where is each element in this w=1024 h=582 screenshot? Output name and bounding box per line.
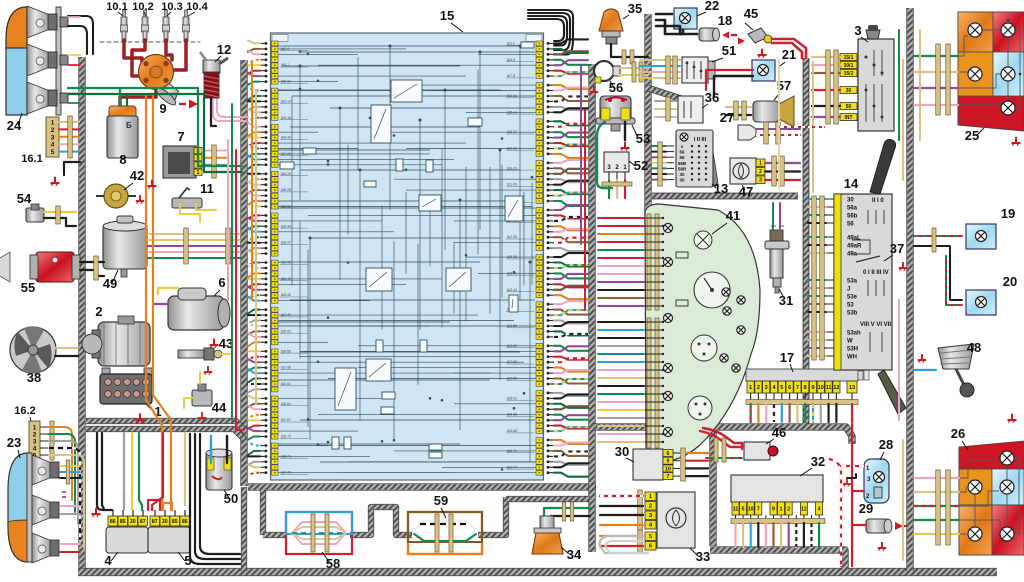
svg-text:6: 6 [667,451,670,457]
svg-text:Ш8-73: Ш8-73 [281,454,291,458]
svg-text:6: 6 [788,385,791,391]
svg-text:Ш2-59: Ш2-59 [507,377,517,381]
svg-text:Ш2-58: Ш2-58 [281,366,291,370]
svg-text:Ш8-19: Ш8-19 [281,136,291,140]
svg-text:49aR: 49aR [847,244,862,250]
svg-text:W: W [847,339,853,345]
svg-text:Ш7-56: Ш7-56 [507,360,517,364]
svg-text:Ш1-50: Ш1-50 [507,324,517,328]
svg-text:1: 1 [780,506,783,512]
svg-text:12: 12 [801,506,807,512]
svg-text:33: 33 [696,549,710,564]
svg-text:Б: Б [126,121,132,130]
svg-text:5: 5 [780,385,783,391]
svg-text:56: 56 [847,222,854,228]
svg-text:10: 10 [818,385,824,391]
svg-text:31: 31 [779,293,793,308]
svg-text:Ш5-61: Ш5-61 [281,382,291,386]
svg-text:Ш8-28: Ш8-28 [281,188,291,192]
svg-text:1: 1 [51,120,55,127]
svg-text:12: 12 [833,385,839,391]
svg-text:6: 6 [218,275,225,290]
svg-text:38: 38 [27,370,41,385]
svg-text:56: 56 [679,155,685,160]
svg-text:2: 2 [759,169,762,175]
svg-text:16.2: 16.2 [14,405,35,417]
svg-text:4: 4 [33,446,37,453]
svg-text:Ш5-14: Ш5-14 [507,110,517,114]
svg-text:49a: 49a [847,252,858,258]
svg-text:Ш5-62: Ш5-62 [507,396,517,400]
svg-text:Ш8-46: Ш8-46 [281,293,291,297]
svg-text:Ш2-76: Ш2-76 [281,471,291,475]
svg-text:86: 86 [182,519,188,525]
svg-text:42: 42 [130,168,144,183]
svg-text:J: J [847,287,850,293]
svg-text:53: 53 [636,131,650,146]
svg-text:30: 30 [847,198,854,204]
svg-text:Ш1-74: Ш1-74 [507,465,517,469]
svg-text:7: 7 [667,474,670,480]
svg-text:INT: INT [844,115,852,121]
svg-text:3: 3 [33,439,37,446]
svg-text:1: 1 [759,161,762,167]
svg-text:26: 26 [951,426,965,441]
svg-text:56b: 56b [847,214,858,220]
svg-text:Ш2-35: Ш2-35 [507,235,517,239]
svg-text:15/2: 15/2 [844,71,854,77]
svg-text:Ш8-64: Ш8-64 [281,402,291,406]
svg-text:12: 12 [217,42,231,57]
svg-text:7: 7 [177,129,184,144]
svg-text:32: 32 [811,454,825,469]
svg-text:9: 9 [667,459,670,465]
svg-text:Ш5-70: Ш5-70 [281,435,291,439]
svg-text:2: 2 [787,506,790,512]
svg-text:30/1: 30/1 [844,63,854,69]
svg-text:Ш2-4: Ш2-4 [281,47,289,51]
svg-text:Ш2-40: Ш2-40 [281,261,291,265]
svg-text:50: 50 [846,104,852,110]
svg-text:19: 19 [1001,206,1015,221]
svg-text:10: 10 [748,506,754,512]
svg-text:Ш8-37: Ш8-37 [281,241,291,245]
svg-text:30: 30 [162,519,168,525]
svg-text:0 I II III IV: 0 I II III IV [863,270,889,276]
svg-text:21: 21 [782,47,796,62]
svg-text:53ah: 53ah [847,331,861,337]
svg-text:Ш8-55: Ш8-55 [281,349,291,353]
svg-text:29: 29 [859,501,873,516]
svg-text:3: 3 [649,513,652,519]
svg-text:10.1: 10.1 [106,1,127,13]
svg-text:WH: WH [847,355,857,361]
svg-text:87: 87 [140,519,146,525]
svg-text:59: 59 [434,493,448,508]
svg-text:56B: 56B [678,161,687,166]
svg-text:Ш1-2: Ш1-2 [507,41,515,45]
svg-text:2: 2 [757,385,760,391]
svg-text:44: 44 [212,400,227,415]
svg-text:56: 56 [679,150,685,155]
svg-text:34: 34 [567,547,582,562]
svg-text:3: 3 [759,178,762,184]
svg-text:47: 47 [739,184,753,199]
svg-text:85: 85 [120,519,126,525]
svg-text:11: 11 [826,385,832,391]
svg-text:11: 11 [200,181,214,196]
svg-text:49aL: 49aL [847,236,861,242]
svg-text:28: 28 [879,437,893,452]
svg-text:27: 27 [720,110,734,125]
svg-text:5: 5 [51,149,55,156]
svg-text:17: 17 [780,350,794,365]
svg-text:Ш2-67: Ш2-67 [281,418,291,422]
svg-text:87: 87 [152,519,158,525]
svg-text:4: 4 [818,506,821,512]
svg-text:14: 14 [844,176,859,191]
svg-text:Ш6-23: Ш6-23 [507,166,517,170]
svg-text:8: 8 [119,152,126,167]
svg-text:85: 85 [172,519,178,525]
svg-text:36: 36 [705,90,719,105]
svg-text:VIII V VI VII: VIII V VI VII [860,322,891,328]
svg-text:8: 8 [804,385,807,391]
svg-text:10.2: 10.2 [132,1,153,13]
svg-text:Ш8-10: Ш8-10 [281,80,291,84]
svg-text:49: 49 [103,276,117,291]
svg-text:Ш6-71: Ш6-71 [507,449,517,453]
svg-text:Ш3-68: Ш3-68 [507,429,517,433]
svg-text:37: 37 [890,241,904,256]
svg-text:22: 22 [705,0,719,13]
svg-text:2: 2 [51,127,55,134]
svg-text:2: 2 [649,504,652,510]
svg-text:45: 45 [744,6,758,21]
svg-text:53H: 53H [847,347,858,353]
svg-text:53b: 53b [847,311,858,317]
svg-text:9: 9 [159,101,166,116]
svg-text:13: 13 [714,181,728,196]
svg-text:Ш3-44: Ш3-44 [507,288,517,292]
svg-text:7: 7 [796,385,799,391]
svg-text:Ш8-65: Ш8-65 [507,413,517,417]
svg-text:56a: 56a [847,206,858,212]
svg-text:Ш5-38: Ш5-38 [507,255,517,259]
svg-text:46: 46 [772,425,786,440]
svg-text:Ш5-52: Ш5-52 [281,329,291,333]
svg-text:II I 0: II I 0 [872,198,884,204]
svg-text:51: 51 [722,43,736,58]
svg-text:5: 5 [742,506,745,512]
svg-text:54: 54 [17,191,32,206]
svg-text:53: 53 [847,303,854,309]
svg-text:1: 1 [649,494,652,500]
svg-text:7: 7 [757,506,760,512]
svg-text:30: 30 [130,519,136,525]
svg-text:Ш8-41: Ш8-41 [507,271,517,275]
svg-text:Ш2-11: Ш2-11 [507,94,517,98]
svg-text:23: 23 [7,435,21,450]
svg-text:35: 35 [628,1,642,16]
svg-text:1: 1 [33,425,37,432]
svg-text:10.3: 10.3 [161,1,182,13]
svg-text:4: 4 [51,142,55,149]
svg-text:53e: 53e [847,295,858,301]
svg-text:3: 3 [51,134,55,141]
svg-text:Ш2-22: Ш2-22 [281,152,291,156]
svg-text:20: 20 [1003,274,1017,289]
svg-text:52: 52 [634,158,648,173]
svg-text:Ш3-20: Ш3-20 [507,147,517,151]
svg-text:Ш2-13: Ш2-13 [281,99,291,103]
svg-text:3: 3 [854,23,861,38]
svg-text:30: 30 [679,178,685,183]
svg-text:18: 18 [718,13,732,28]
svg-text:Ш5-7: Ш5-7 [281,63,289,67]
svg-text:2: 2 [95,304,102,319]
svg-text:58: 58 [326,556,340,571]
svg-text:30: 30 [615,444,629,459]
svg-text:Ш7-8: Ш7-8 [507,74,515,78]
svg-text:6: 6 [649,544,652,550]
svg-text:Ш5-25: Ш5-25 [281,172,291,176]
svg-text:48: 48 [967,340,981,355]
svg-text:Ш2-31: Ш2-31 [281,205,291,209]
svg-text:Ш1-26: Ш1-26 [507,183,517,187]
svg-text:53a: 53a [847,279,858,285]
svg-text:Ш5-16: Ш5-16 [281,116,291,120]
svg-text:41: 41 [726,208,740,223]
svg-text:11: 11 [733,506,739,512]
svg-text:Ш4-53: Ш4-53 [507,344,517,348]
svg-text:15: 15 [440,8,454,23]
svg-text:I II III: I II III [694,137,707,143]
svg-text:Ш4-5: Ш4-5 [507,58,515,62]
svg-text:2: 2 [33,432,37,439]
svg-text:9: 9 [811,385,814,391]
svg-text:55: 55 [21,280,35,295]
svg-text:86: 86 [110,519,116,525]
svg-text:16.1: 16.1 [21,153,42,165]
svg-text:15/1: 15/1 [844,55,854,61]
svg-text:Ш5-34: Ш5-34 [281,224,291,228]
svg-text:Ш8-17: Ш8-17 [507,130,517,134]
svg-text:Ш5-43: Ш5-43 [281,277,291,281]
svg-text:10.4: 10.4 [186,1,208,13]
svg-text:1: 1 [749,385,752,391]
svg-text:30: 30 [679,172,685,177]
svg-text:13: 13 [849,385,855,391]
svg-text:58R: 58R [678,166,687,171]
svg-text:10: 10 [665,466,671,472]
svg-text:1: 1 [197,170,200,176]
svg-text:30: 30 [846,88,852,94]
svg-text:9: 9 [772,506,775,512]
svg-text:3: 3 [765,385,768,391]
svg-text:Ш2-49: Ш2-49 [281,313,291,317]
svg-text:5: 5 [649,534,652,540]
